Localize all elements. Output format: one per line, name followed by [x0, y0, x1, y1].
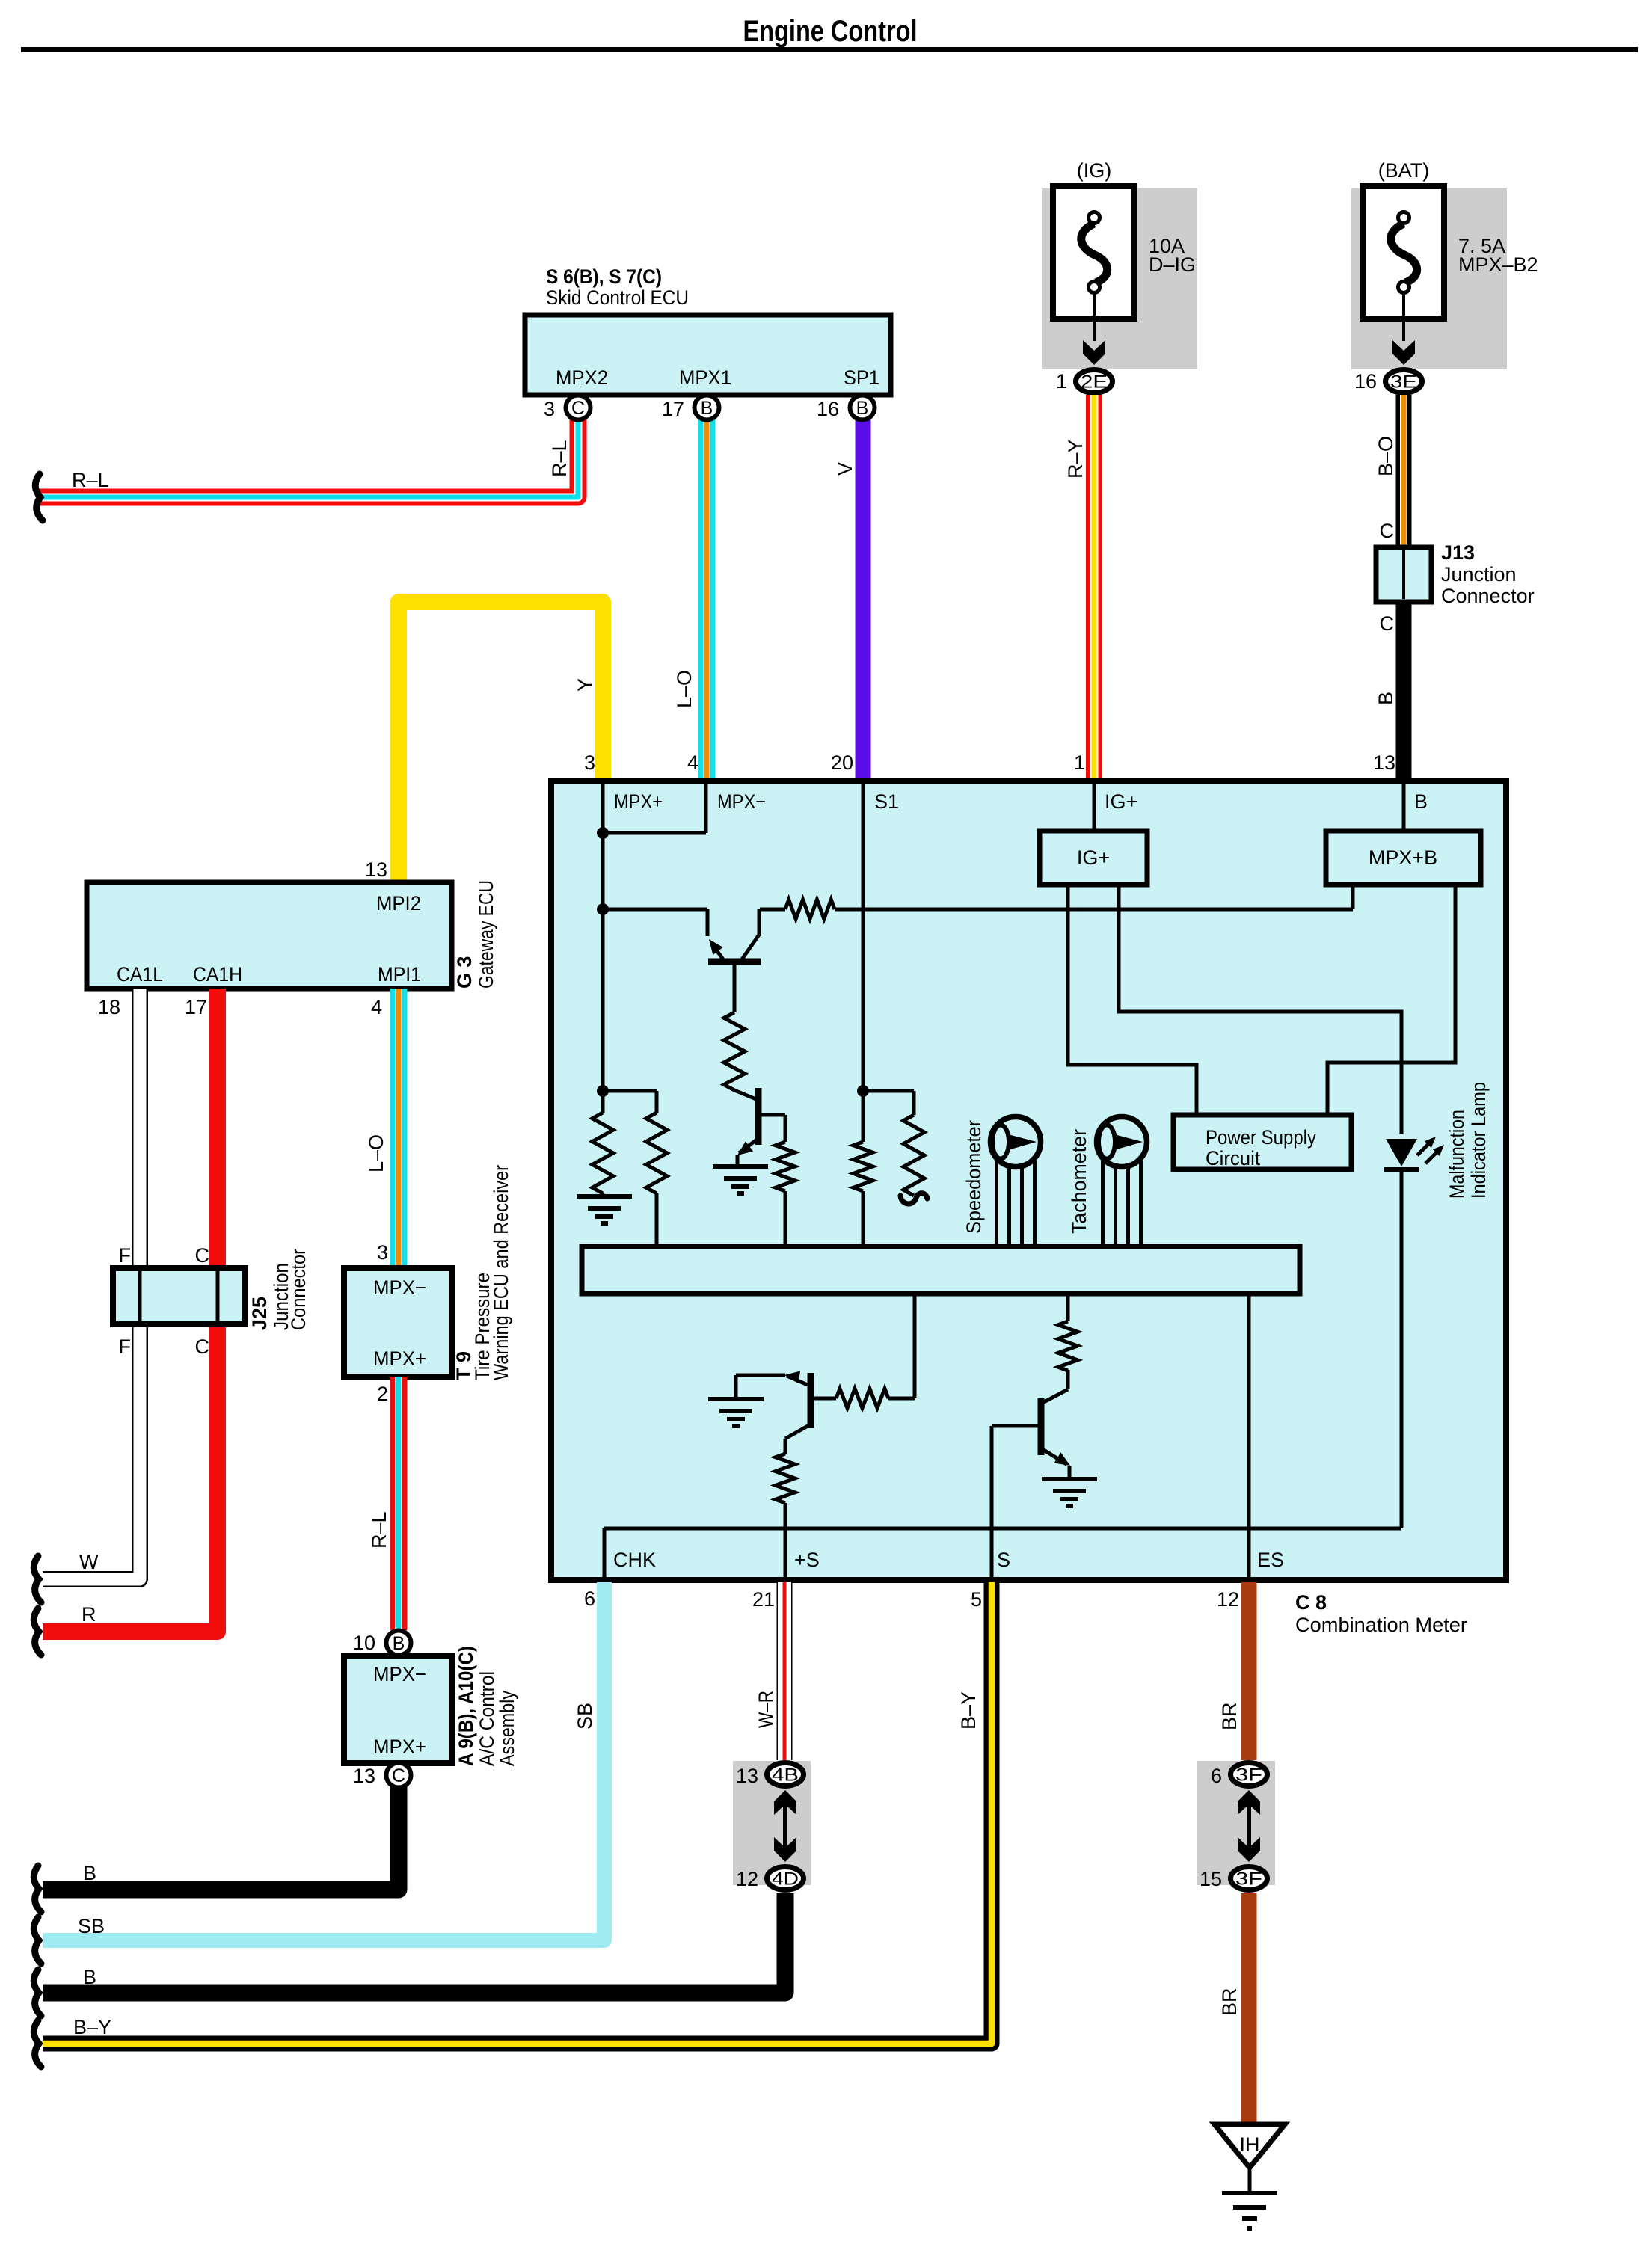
svg-text:16: 16 [1354, 370, 1377, 393]
svg-text:Connector: Connector [1441, 585, 1535, 607]
svg-text:Combination Meter: Combination Meter [1295, 1614, 1467, 1636]
svg-text:W: W [79, 1551, 99, 1573]
svg-text:(IG): (IG) [1077, 159, 1112, 182]
svg-text:L–O: L–O [365, 1134, 387, 1172]
svg-text:CA1H: CA1H [193, 963, 242, 986]
svg-text:2E: 2E [1081, 372, 1108, 393]
svg-text:+S: +S [794, 1549, 820, 1571]
svg-text:D–IG: D–IG [1149, 253, 1196, 276]
svg-text:R–L: R–L [548, 440, 571, 477]
svg-text:Circuit: Circuit [1206, 1147, 1260, 1169]
svg-text:MPX1: MPX1 [679, 366, 731, 389]
svg-text:15: 15 [1200, 1868, 1222, 1890]
svg-text:13: 13 [353, 1765, 375, 1787]
svg-text:4B: 4B [772, 1765, 799, 1786]
svg-text:C 8: C 8 [1295, 1591, 1327, 1614]
svg-text:3F: 3F [1235, 1869, 1262, 1890]
svg-text:Tachometer: Tachometer [1068, 1129, 1090, 1234]
svg-text:Engine Control: Engine Control [743, 15, 918, 48]
svg-text:12: 12 [1217, 1588, 1239, 1611]
svg-text:5: 5 [971, 1588, 982, 1611]
svg-text:C: C [392, 1765, 405, 1786]
svg-text:MPX−: MPX− [373, 1663, 426, 1685]
svg-text:S1: S1 [874, 790, 899, 813]
svg-text:BR: BR [1218, 1988, 1241, 2016]
svg-text:B–O: B–O [1375, 436, 1397, 476]
svg-text:21: 21 [752, 1588, 775, 1611]
svg-text:17: 17 [662, 398, 684, 420]
svg-text:C: C [1380, 520, 1395, 542]
svg-text:B: B [701, 398, 713, 419]
svg-text:18: 18 [98, 996, 120, 1018]
svg-text:3E: 3E [1390, 372, 1417, 393]
svg-text:W–R: W–R [755, 1691, 777, 1728]
svg-text:13: 13 [1373, 751, 1395, 774]
svg-text:1: 1 [1056, 370, 1067, 393]
svg-text:G 3: G 3 [453, 956, 476, 989]
svg-text:6: 6 [584, 1587, 595, 1610]
svg-text:4: 4 [371, 996, 382, 1018]
svg-text:L–O: L–O [673, 670, 696, 708]
svg-text:20: 20 [831, 751, 853, 774]
svg-text:Assembly: Assembly [496, 1691, 518, 1766]
svg-text:3: 3 [544, 398, 555, 420]
svg-text:S 6(B), S 7(C): S 6(B), S 7(C) [546, 265, 662, 288]
svg-text:B: B [83, 1966, 96, 1988]
svg-text:SB: SB [78, 1915, 105, 1937]
svg-text:J13: J13 [1441, 541, 1475, 564]
svg-text:B: B [1375, 692, 1397, 705]
svg-text:IG+: IG+ [1077, 846, 1110, 869]
svg-text:12: 12 [736, 1868, 758, 1890]
svg-text:R: R [82, 1603, 96, 1626]
svg-text:13: 13 [736, 1765, 758, 1787]
svg-text:BR: BR [1218, 1702, 1241, 1730]
svg-text:Junction: Junction [1441, 563, 1517, 585]
svg-text:Indicator Lamp: Indicator Lamp [1467, 1082, 1490, 1199]
svg-text:MPX–B2: MPX–B2 [1458, 253, 1538, 276]
svg-text:A 9(B), A10(C): A 9(B), A10(C) [455, 1646, 477, 1766]
svg-text:J25: J25 [248, 1297, 271, 1330]
svg-text:1: 1 [1074, 751, 1085, 774]
svg-text:C: C [571, 398, 585, 419]
svg-text:B–Y: B–Y [957, 1691, 980, 1730]
svg-text:6: 6 [1211, 1765, 1222, 1787]
svg-text:R–L: R–L [72, 469, 109, 491]
svg-text:B: B [83, 1862, 96, 1884]
svg-text:MPX+: MPX+ [373, 1736, 426, 1758]
svg-text:(BAT): (BAT) [1378, 159, 1430, 182]
svg-text:Speedometer: Speedometer [962, 1120, 985, 1234]
svg-text:2: 2 [377, 1383, 388, 1405]
svg-text:F: F [119, 1244, 132, 1267]
svg-text:MPX+: MPX+ [614, 790, 663, 813]
svg-text:ES: ES [1257, 1549, 1284, 1571]
svg-text:Y: Y [574, 678, 596, 692]
svg-text:C: C [195, 1335, 210, 1358]
svg-text:3: 3 [584, 751, 595, 774]
svg-text:C: C [1380, 612, 1395, 635]
svg-text:Malfunction: Malfunction [1446, 1110, 1468, 1199]
svg-text:F: F [119, 1335, 132, 1358]
svg-text:A/C Control: A/C Control [476, 1671, 498, 1766]
svg-text:MPI2: MPI2 [376, 892, 421, 914]
svg-text:MPX+: MPX+ [373, 1347, 426, 1370]
svg-text:3F: 3F [1235, 1765, 1262, 1786]
svg-text:R–Y: R–Y [1064, 439, 1087, 479]
svg-text:B: B [856, 398, 869, 419]
svg-text:Warning ECU and Receiver: Warning ECU and Receiver [490, 1165, 512, 1380]
svg-text:MPI1: MPI1 [378, 963, 421, 986]
svg-text:Skid Control ECU: Skid Control ECU [546, 286, 689, 309]
svg-text:Connector: Connector [287, 1249, 310, 1330]
svg-text:CHK: CHK [613, 1549, 656, 1571]
svg-text:SB: SB [574, 1703, 596, 1730]
svg-text:4: 4 [687, 751, 698, 774]
svg-text:R–L: R–L [368, 1511, 390, 1549]
svg-text:3: 3 [377, 1241, 388, 1264]
svg-text:Power Supply: Power Supply [1206, 1126, 1316, 1149]
svg-text:B: B [393, 1633, 405, 1654]
svg-text:S: S [997, 1549, 1010, 1571]
svg-text:C: C [195, 1244, 210, 1267]
svg-text:SP1: SP1 [844, 366, 879, 389]
svg-text:17: 17 [185, 996, 207, 1018]
svg-text:MPX−: MPX− [717, 790, 766, 813]
svg-text:4D: 4D [772, 1869, 799, 1890]
svg-text:IG+: IG+ [1105, 790, 1137, 813]
svg-text:16: 16 [817, 398, 839, 420]
svg-text:B–Y: B–Y [73, 2016, 111, 2038]
svg-text:MPX+B: MPX+B [1369, 846, 1437, 869]
svg-text:IH: IH [1240, 2133, 1260, 2156]
svg-text:B: B [1414, 790, 1428, 813]
svg-text:10: 10 [353, 1632, 375, 1654]
svg-text:13: 13 [365, 858, 387, 881]
svg-text:MPX2: MPX2 [556, 366, 608, 389]
svg-text:Gateway ECU: Gateway ECU [475, 880, 497, 989]
svg-text:V: V [834, 462, 856, 476]
svg-text:MPX−: MPX− [373, 1276, 426, 1299]
svg-text:CA1L: CA1L [117, 963, 163, 986]
